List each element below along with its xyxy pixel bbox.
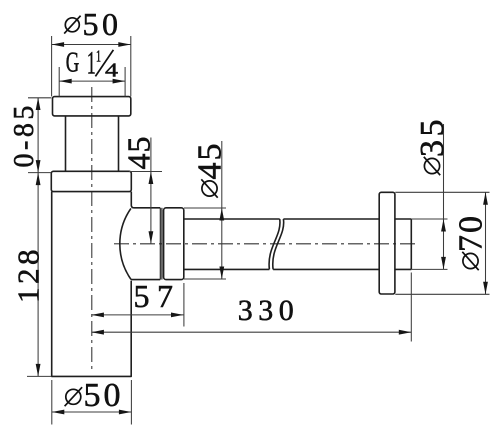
dim ⌀35 extension lines	[411, 219, 447, 269]
dim 128 extension line bottom	[27, 375, 52, 377]
elbow arc	[120, 208, 131, 279]
dim ⌀50 top line	[52, 42, 131, 47]
dim 330 extension line	[410, 273, 412, 342]
dim ⌀45 text	[192, 142, 229, 198]
dim G1 1/4 line	[59, 79, 125, 84]
centerline horizontal outlet axis	[114, 243, 418, 245]
svg-text:45: 45	[121, 136, 157, 170]
svg-text:50: 50	[84, 377, 124, 414]
dim 57 extension line	[183, 283, 185, 327]
dim G1 1/4 extension lines	[59, 67, 125, 96]
dim ⌀50 bottom text	[65, 377, 124, 414]
svg-text:4: 4	[105, 60, 118, 82]
outlet pipe bottom edge	[184, 268, 411, 270]
svg-text:1: 1	[87, 45, 96, 81]
dim 128 line	[36, 173, 41, 377]
svg-text:50: 50	[83, 6, 122, 42]
body nut	[51, 171, 131, 191]
svg-text:0-85: 0-85	[9, 102, 40, 167]
svg-text:70: 70	[453, 214, 490, 252]
dim ⌀50 bottom extension lines	[52, 380, 132, 425]
svg-text:330: 330	[238, 294, 299, 327]
outlet washer ring	[160, 208, 162, 280]
dim ⌀70 text	[453, 214, 490, 270]
dim 45 text	[121, 136, 157, 170]
outlet nut	[164, 208, 184, 280]
dim ⌀50 top text	[64, 6, 121, 42]
dim ⌀70 line	[483, 192, 488, 294]
dim 57 line	[91, 313, 183, 318]
dim 128 text	[11, 246, 46, 303]
svg-text:35: 35	[414, 116, 451, 157]
inlet pipe	[66, 116, 119, 171]
dim G1 1/4 text	[66, 45, 118, 81]
dim 45 drop extension line	[129, 171, 162, 173]
body cup	[52, 192, 132, 377]
dim 0-85 extension lines	[28, 98, 51, 173]
dim 45 drop line	[149, 138, 154, 244]
dim 57 text	[134, 278, 181, 314]
inlet flange	[53, 97, 131, 116]
dim ⌀35 line	[441, 124, 446, 269]
pipe end	[410, 219, 412, 269]
svg-text:128: 128	[11, 246, 46, 303]
svg-text:1: 1	[96, 47, 101, 66]
dim 0-85 line	[36, 98, 41, 173]
centerline vertical body axis	[91, 87, 93, 372]
dim 330 line	[91, 330, 411, 335]
svg-text:45: 45	[192, 142, 229, 180]
pipe break lines	[269, 219, 284, 269]
wall flange	[379, 192, 395, 294]
outlet pipe top edge	[184, 218, 411, 220]
dim 0-85 text	[9, 102, 40, 167]
svg-text:G: G	[66, 47, 80, 78]
dim ⌀70 extension lines	[395, 192, 489, 294]
dim ⌀45 line	[219, 141, 224, 279]
dim ⌀50 top extension lines	[52, 36, 131, 96]
elbow bottom lip	[131, 278, 160, 280]
svg-text:57: 57	[134, 278, 181, 314]
elbow neck	[131, 192, 160, 208]
dim ⌀45 extension lines	[184, 208, 226, 279]
dim ⌀50 bottom line	[52, 410, 132, 415]
dim 330 text	[238, 294, 299, 327]
dim ⌀35 text	[414, 116, 451, 175]
